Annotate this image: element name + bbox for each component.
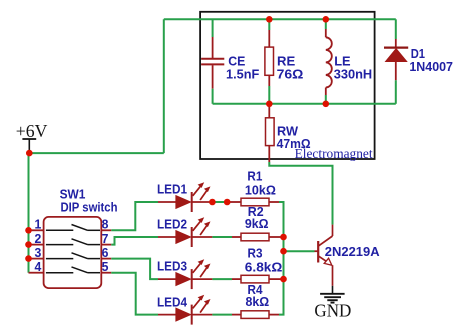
svg-text:6.8kΩ: 6.8kΩ xyxy=(245,260,283,275)
svg-text:+6V: +6V xyxy=(16,121,48,141)
wire RW to collector xyxy=(269,162,332,225)
junction R3 out xyxy=(280,276,287,283)
pin stub 1 xyxy=(31,229,44,231)
svg-text:2N2219A: 2N2219A xyxy=(325,244,380,259)
svg-text:GND: GND xyxy=(314,300,351,320)
electromagnet box xyxy=(200,12,375,159)
wire base xyxy=(284,250,315,252)
inductor LE xyxy=(326,19,332,104)
pin stub 2 xyxy=(31,244,44,246)
transistor Q1 2N2219A xyxy=(318,225,332,286)
supply +6V xyxy=(22,139,36,153)
svg-text:6: 6 xyxy=(102,245,109,260)
svg-text:LED1: LED1 xyxy=(157,182,187,197)
svg-text:7: 7 xyxy=(102,231,109,246)
pin stub 3 xyxy=(31,258,44,260)
resistor R2 xyxy=(241,233,284,241)
LED1 xyxy=(158,182,211,212)
svg-text:10kΩ: 10kΩ xyxy=(245,183,276,198)
wire left riser to top rail xyxy=(163,19,165,153)
wire pin6 to LED3 xyxy=(111,259,158,280)
switch pole 4 xyxy=(46,267,100,273)
svg-text:8: 8 xyxy=(102,217,109,232)
svg-text:DIP switch: DIP switch xyxy=(61,200,118,215)
wire LED2 to R2 xyxy=(192,236,213,238)
junction LED1 a xyxy=(209,199,216,206)
svg-text:9kΩ: 9kΩ xyxy=(245,216,269,231)
switch pole 1 xyxy=(46,225,100,231)
junction +6V node xyxy=(26,150,33,157)
pin stub 8 xyxy=(101,229,111,231)
svg-text:R3: R3 xyxy=(248,245,263,260)
pin stub 4 xyxy=(29,272,44,274)
junction LE bottom xyxy=(323,101,330,108)
wire pin5 to LED4 xyxy=(111,273,158,315)
diode D1 xyxy=(384,19,408,104)
pin stub 6 xyxy=(101,258,111,260)
LED4 xyxy=(158,295,211,325)
dip switch SW1 body xyxy=(44,217,102,288)
resistor RW xyxy=(266,104,275,162)
junction LE top xyxy=(323,16,330,23)
svg-text:76Ω: 76Ω xyxy=(277,67,304,82)
svg-text:2: 2 xyxy=(35,231,42,246)
wire +6V down to switch xyxy=(28,153,30,273)
resistor R4 xyxy=(241,311,279,319)
junction RE bottom xyxy=(266,101,273,108)
pin stub 7 xyxy=(101,244,111,246)
junction pin3 xyxy=(25,255,32,262)
junction R2 out xyxy=(280,234,287,241)
wire bottom rail xyxy=(213,103,396,105)
wire LED1 to R1 xyxy=(192,201,213,203)
resistor RE xyxy=(265,19,274,104)
svg-text:LED4: LED4 xyxy=(157,294,188,309)
svg-text:LED2: LED2 xyxy=(157,217,187,232)
svg-text:R1: R1 xyxy=(247,169,262,184)
LED3 xyxy=(158,259,211,289)
svg-text:4: 4 xyxy=(35,259,43,274)
switch pole 3 xyxy=(46,253,100,259)
wire pin8 to LED1 xyxy=(111,202,158,230)
svg-text:47mΩ: 47mΩ xyxy=(277,136,311,151)
svg-text:330nH: 330nH xyxy=(334,67,373,82)
svg-text:8kΩ: 8kΩ xyxy=(246,294,270,309)
resistor R3 xyxy=(241,275,284,283)
wire LED4 to R4 xyxy=(192,314,213,316)
svg-text:1.5nF: 1.5nF xyxy=(226,67,259,82)
wire top rail xyxy=(164,18,396,20)
svg-text:1N4007: 1N4007 xyxy=(409,59,453,74)
wire +6V horizontal xyxy=(29,152,164,154)
svg-text:3: 3 xyxy=(35,245,42,260)
junction RE top xyxy=(266,16,273,23)
wire resistor bus xyxy=(279,202,284,315)
pin stub 5 xyxy=(101,272,111,274)
svg-text:5: 5 xyxy=(102,259,109,274)
capacitor CE xyxy=(201,19,224,104)
wire pin7 to LED2 xyxy=(111,237,158,245)
junction LED1 b xyxy=(224,199,231,206)
junction pin1 xyxy=(25,227,32,234)
wire LED3 to R3 xyxy=(192,278,213,280)
svg-text:LED3: LED3 xyxy=(157,258,187,273)
switch pole 2 xyxy=(46,239,100,245)
junction base xyxy=(280,248,287,255)
resistor R1 xyxy=(241,198,279,206)
LED2 xyxy=(158,217,211,247)
ground xyxy=(320,286,345,303)
junction pin2 xyxy=(25,241,32,248)
svg-text:1: 1 xyxy=(35,217,42,232)
